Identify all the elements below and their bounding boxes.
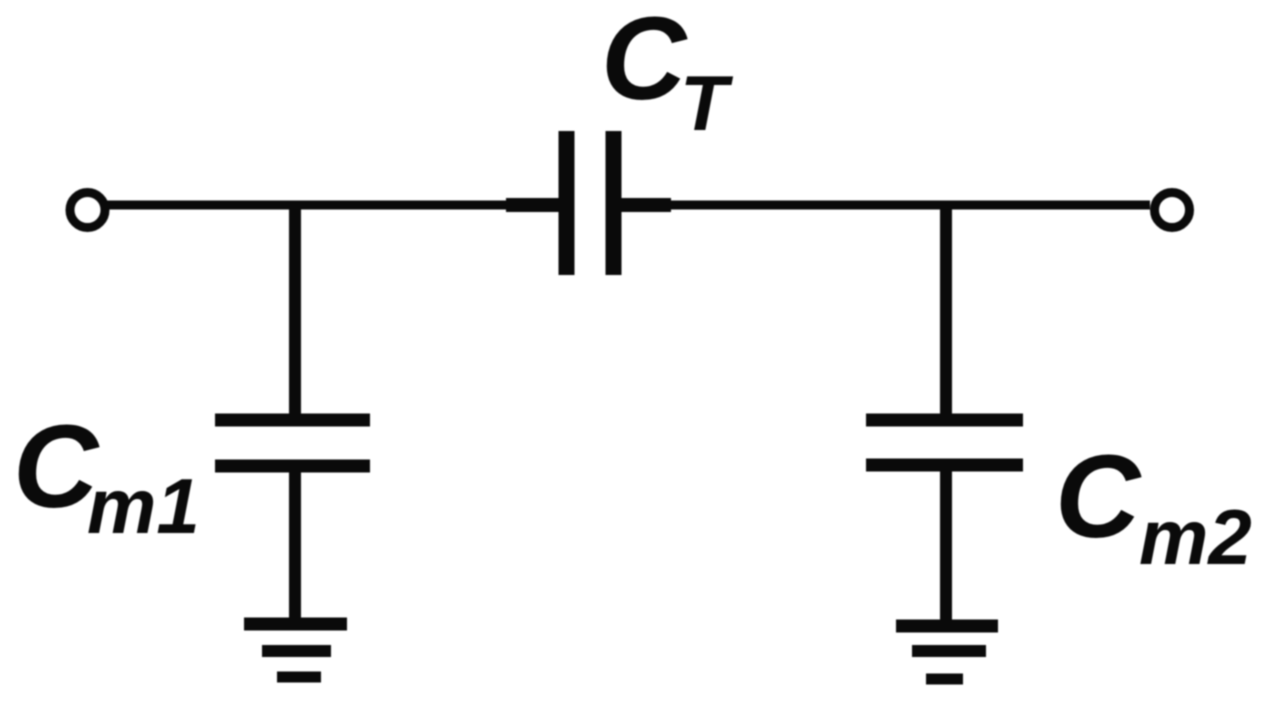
svg-text:C: C xyxy=(601,0,688,125)
svg-text:m2: m2 xyxy=(1139,493,1252,581)
svg-text:T: T xyxy=(680,59,734,147)
svg-text:C: C xyxy=(1055,431,1142,563)
svg-text:m1: m1 xyxy=(87,462,200,550)
